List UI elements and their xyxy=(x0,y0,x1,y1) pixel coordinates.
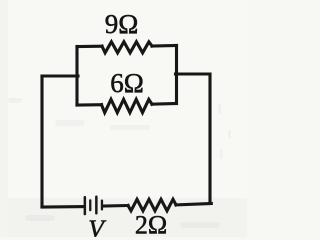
wire: bottom-right segment xyxy=(176,204,211,205)
svg-text:6Ω: 6Ω xyxy=(110,68,144,98)
wire: left tap node A xyxy=(42,74,78,77)
wire: inner right vertical xyxy=(175,46,178,104)
wire: inner bottom-right segment xyxy=(152,102,177,106)
battery long plate 1 xyxy=(84,196,87,215)
wire: inner left vertical xyxy=(75,47,78,106)
wire: outer right vertical xyxy=(208,74,211,204)
wire: inner bottom-left segment xyxy=(77,103,102,106)
svg-text:9Ω: 9Ω xyxy=(105,9,139,39)
svg-text:2Ω: 2Ω xyxy=(135,211,167,238)
resistor R3 2ohm zigzag xyxy=(128,199,176,211)
paper background xyxy=(0,0,247,237)
wire: right tap node B xyxy=(176,72,211,75)
battery short plate 2 xyxy=(89,199,91,211)
wire: bottom-left segment to battery xyxy=(42,205,84,208)
faint scan smudges xyxy=(8,98,231,228)
wire: inner top-left segment xyxy=(77,45,102,48)
wire: inner top-right segment xyxy=(152,44,177,48)
wire: outer left vertical xyxy=(40,76,43,207)
wire: battery to resistor segment xyxy=(103,204,128,208)
battery V plates xyxy=(84,196,104,216)
battery long plate 3 xyxy=(95,196,98,215)
battery short plate 4 xyxy=(101,200,103,211)
resistor R1 9ohm zigzag xyxy=(102,42,152,53)
resistor R2 6ohm zigzag xyxy=(102,99,153,112)
